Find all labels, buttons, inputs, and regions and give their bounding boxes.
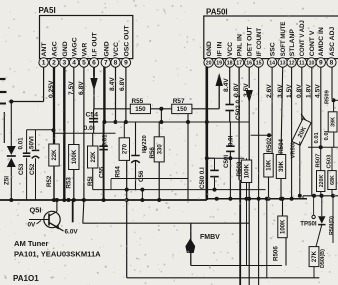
- svg-text:R504: R504: [278, 138, 285, 153]
- svg-text:R53: R53: [65, 177, 72, 189]
- svg-text:220K: 220K: [319, 175, 325, 188]
- svg-text:GND: GND: [62, 41, 69, 56]
- svg-text:0.01: 0.01: [101, 134, 108, 147]
- svg-text:SOFT MUTE: SOFT MUTE: [281, 22, 287, 57]
- svg-text:100K: 100K: [245, 163, 251, 178]
- svg-text:C5I0 0.I: C5I0 0.I: [199, 167, 206, 189]
- svg-text:D50I(B): D50I(B): [320, 249, 326, 268]
- svg-text:0.8V: 0.8V: [296, 84, 303, 98]
- svg-text:PA1O1: PA1O1: [13, 274, 39, 283]
- svg-text:FMBV: FMBV: [200, 234, 220, 241]
- svg-text:VAR: VAR: [82, 43, 89, 57]
- svg-text:VCC: VCC: [227, 42, 234, 56]
- svg-text:7.5V: 7.5V: [68, 81, 75, 95]
- svg-text:8.4V: 8.4V: [109, 77, 116, 91]
- svg-text:13: 13: [280, 61, 286, 67]
- svg-text:3.5V: 3.5V: [243, 83, 250, 97]
- svg-text:PA5I: PA5I: [39, 6, 56, 15]
- svg-text:0.01: 0.01: [314, 131, 320, 143]
- svg-text:VR50I: VR50I: [290, 142, 296, 159]
- svg-text:22K: 22K: [91, 151, 97, 163]
- svg-text:AGC: AGC: [52, 41, 59, 56]
- svg-text:8: 8: [114, 60, 118, 67]
- svg-text:14: 14: [269, 61, 275, 67]
- svg-text:19: 19: [216, 61, 222, 67]
- svg-text:C502 0.1: C502 0.1: [235, 94, 242, 120]
- svg-text:16: 16: [246, 61, 252, 67]
- svg-text:Z5I: Z5I: [3, 176, 10, 185]
- svg-text:C52: C52: [29, 163, 36, 175]
- svg-text:150: 150: [177, 106, 188, 113]
- svg-text:R56: R56: [149, 147, 156, 159]
- svg-text:1.8V: 1.8V: [306, 84, 313, 98]
- svg-text:6.0V: 6.0V: [65, 228, 79, 235]
- svg-text:2.6V: 2.6V: [266, 84, 273, 98]
- svg-text:3: 3: [62, 60, 66, 67]
- svg-text:C50I: C50I: [223, 155, 230, 168]
- svg-text:R50I(D): R50I(D): [329, 216, 335, 235]
- svg-text:15: 15: [256, 61, 262, 67]
- svg-text:ANT: ANT: [41, 42, 48, 57]
- svg-text:100K: 100K: [281, 219, 287, 234]
- svg-text:AMDC IN: AMDC IN: [318, 27, 325, 56]
- svg-text:C503: C503: [327, 154, 333, 169]
- svg-text:R5I: R5I: [87, 176, 94, 186]
- svg-text:150: 150: [135, 106, 146, 113]
- svg-text:100K: 100K: [72, 149, 78, 164]
- svg-text:GND: GND: [206, 41, 213, 56]
- svg-text:R52: R52: [46, 175, 53, 187]
- svg-text:18: 18: [227, 61, 233, 67]
- svg-text:22K: 22K: [52, 149, 58, 161]
- svg-text:0.01: 0.01: [18, 137, 25, 150]
- svg-text:C53: C53: [18, 163, 25, 175]
- svg-text:ASC ADJ: ASC ADJ: [329, 26, 336, 56]
- svg-text:9: 9: [319, 60, 323, 67]
- svg-text:330: 330: [157, 144, 163, 155]
- svg-text:B: B: [144, 146, 148, 152]
- svg-text:10: 10: [309, 61, 315, 67]
- svg-text:VCC: VCC: [113, 42, 120, 56]
- svg-text:17: 17: [236, 61, 242, 67]
- svg-text:C55: C55: [99, 166, 106, 178]
- svg-text:8: 8: [330, 60, 334, 67]
- svg-text:68K: 68K: [330, 175, 336, 185]
- svg-text:Q5I: Q5I: [30, 206, 42, 215]
- svg-text:C56: C56: [138, 170, 145, 182]
- svg-text:39K: 39K: [331, 117, 337, 127]
- svg-text:R507: R507: [315, 154, 321, 168]
- svg-text:8.4V: 8.4V: [223, 78, 230, 92]
- svg-text:STLANP: STLANP: [289, 29, 296, 57]
- svg-text:270: 270: [122, 143, 128, 154]
- svg-text:CONT V: CONT V: [309, 30, 316, 56]
- svg-text:7: 7: [104, 60, 108, 67]
- svg-text:0.25V: 0.25V: [48, 80, 55, 98]
- svg-text:6.8V: 6.8V: [119, 77, 126, 91]
- svg-text:10K: 10K: [267, 159, 273, 171]
- svg-text:0.8V: 0.8V: [233, 83, 240, 97]
- svg-text:11: 11: [299, 61, 305, 67]
- svg-text:R54: R54: [114, 166, 121, 178]
- svg-text:50VI: 50VI: [28, 136, 35, 149]
- svg-text:R502: R502: [266, 137, 273, 152]
- svg-text:PNL IN: PNL IN: [237, 34, 244, 56]
- svg-text:CONT V ADJ: CONT V ADJ: [300, 20, 306, 56]
- svg-text:2: 2: [52, 60, 56, 67]
- svg-text:C54: C54: [86, 112, 99, 119]
- svg-text:R55: R55: [132, 98, 144, 105]
- svg-text:39K: 39K: [279, 160, 285, 172]
- svg-text:IF COUNT: IF COUNT: [257, 28, 263, 57]
- svg-text:3.6V: 3.6V: [277, 84, 284, 98]
- svg-text:TP50I: TP50I: [300, 221, 317, 228]
- svg-text:AM Tuner: AM Tuner: [14, 239, 48, 248]
- svg-text:27K: 27K: [312, 250, 318, 262]
- svg-text:9: 9: [124, 60, 128, 67]
- svg-text:4: 4: [72, 60, 76, 67]
- svg-text:I.F OUT: I.F OUT: [92, 31, 99, 56]
- svg-text:0.0I: 0.0I: [84, 125, 95, 132]
- svg-text:GND: GND: [103, 41, 110, 56]
- svg-text:R506: R506: [273, 246, 280, 261]
- svg-text:DET OUT: DET OUT: [247, 26, 254, 57]
- svg-text:6: 6: [92, 60, 96, 67]
- svg-text:1: 1: [42, 60, 46, 67]
- svg-text:PA101, YEAU03SKM11A: PA101, YEAU03SKM11A: [14, 250, 101, 259]
- svg-text:VAGC: VAGC: [72, 37, 79, 56]
- svg-text:20: 20: [206, 61, 212, 67]
- svg-text:SSC: SSC: [270, 42, 277, 56]
- svg-text:5: 5: [82, 60, 86, 67]
- svg-text:OSC OUT: OSC OUT: [124, 25, 131, 57]
- svg-text:4.5V: 4.5V: [314, 84, 321, 98]
- svg-text:PA50I: PA50I: [206, 8, 228, 17]
- svg-text:R503: R503: [236, 161, 243, 176]
- svg-text:R57: R57: [173, 98, 185, 105]
